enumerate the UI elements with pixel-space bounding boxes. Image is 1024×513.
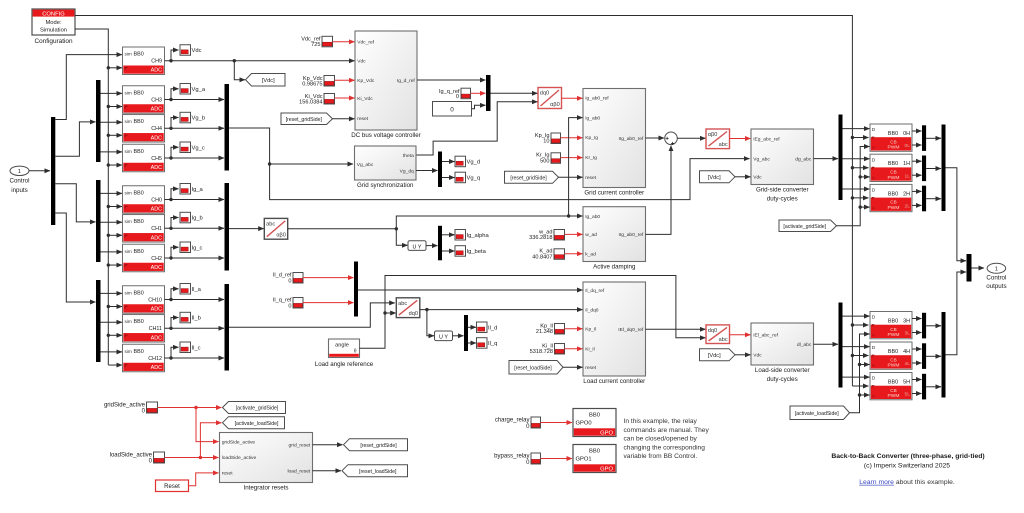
svg-text:Kp_Vdc: Kp_Vdc	[357, 78, 375, 84]
svg-text:αβ0: αβ0	[550, 102, 560, 108]
wire Vdc to load duty cycles	[735, 354, 751, 356]
wire selector to demux	[453, 335, 464, 337]
svg-text:4L: 4L	[905, 361, 911, 367]
wires PWM outputs to mux	[912, 379, 922, 381]
scope Vdc	[180, 45, 202, 56]
svg-text:Simulation: Simulation	[40, 27, 67, 33]
wire ADC output to Il mux	[165, 327, 225, 329]
wire PWM pair to collector	[926, 355, 941, 357]
svg-text:Back-to-Back Converter (three-: Back-to-Back Converter (three-phase, gri…	[831, 453, 984, 460]
wire Vdc to grid duty cycles	[735, 176, 751, 178]
svg-text:abc: abc	[266, 222, 275, 228]
scope Vg_a	[180, 84, 206, 95]
svg-text:IIg_ab0_ref: IIg_ab0_ref	[619, 232, 644, 238]
wire ADC output to Ig mux	[165, 257, 225, 259]
ADC block CH10	[123, 286, 165, 314]
wire demux A to ADC CH9	[55, 55, 122, 120]
svg-text:[Vdc]: [Vdc]	[708, 175, 721, 181]
scope Il_d	[477, 322, 498, 333]
svg-text:[activate_loadSide]: [activate_loadSide]	[795, 411, 839, 417]
subsystem Grid current controller	[583, 89, 646, 197]
demux load duty cycles	[839, 303, 843, 388]
wire ADC output to Vg mux	[165, 127, 225, 129]
wire PWM pair to collector	[926, 325, 941, 327]
svg-text:sim: sim	[125, 290, 132, 295]
svg-text:w_ad: w_ad	[585, 232, 597, 238]
wire Kr_Ig	[561, 157, 583, 159]
wire to output port	[972, 267, 985, 269]
svg-text:Vg_c: Vg_c	[192, 145, 205, 151]
svg-text:1: 1	[18, 169, 21, 175]
svg-text:[activate_gridSide]: [activate_gridSide]	[236, 406, 279, 412]
svg-text:reset: reset	[585, 365, 597, 371]
wire Vg_abc to grid synchronization and duty-cycles	[229, 128, 353, 164]
demux Il dq	[464, 315, 468, 351]
svg-text:Reset: Reset	[164, 484, 180, 490]
mux PWM pair	[922, 313, 926, 339]
mux PWM pair	[922, 125, 926, 151]
GPO block BB0 GPO1	[573, 445, 616, 473]
svg-text:Load current controller: Load current controller	[583, 378, 645, 385]
svg-text:GPO: GPO	[600, 431, 613, 437]
svg-text:Il_b: Il_b	[192, 316, 201, 322]
wire PWM pair to collector	[926, 198, 941, 200]
svg-text:In this example, the relay: In this example, the relay	[624, 418, 698, 425]
svg-text:sim: sim	[125, 149, 132, 154]
svg-text:can be closed/opened by: can be closed/opened by	[624, 436, 698, 443]
ADC block CH9	[123, 47, 165, 75]
svg-text:loadSide_active: loadSide_active	[222, 455, 257, 461]
svg-text:dq0: dq0	[540, 91, 549, 97]
wires PWM outputs to mux	[912, 130, 922, 132]
from tag [reset_gridSide] for DC bus controller	[281, 113, 333, 125]
from tag [Vdc] for grid duty cycles	[700, 171, 736, 183]
scope Il_q	[477, 338, 498, 349]
svg-text:dl_abc: dl_abc	[797, 342, 812, 348]
ADC block CH12	[123, 344, 165, 372]
wire Ig_q_ref to mux	[471, 92, 486, 94]
svg-text:CB: CB	[890, 170, 896, 175]
wire grid PWM bus to output mux	[946, 168, 967, 261]
svg-text:0: 0	[450, 106, 454, 113]
svg-text:Vg_dq: Vg_dq	[400, 168, 414, 174]
svg-text:2H: 2H	[903, 191, 910, 197]
wire reset to load current controller	[563, 366, 583, 368]
svg-text:Grid synchronization: Grid synchronization	[357, 182, 414, 189]
svg-text:reset: reset	[585, 175, 597, 181]
svg-text:Ki_Il: Ki_Il	[585, 347, 595, 353]
constant charge_relay 0	[531, 417, 541, 428]
wire to scope Ig_alpha	[442, 234, 455, 236]
svg-text:40.8407: 40.8407	[532, 254, 552, 260]
svg-text:CB: CB	[890, 388, 896, 393]
svg-text:Il_dq0: Il_dq0	[585, 307, 599, 313]
ADC block CH1	[123, 215, 165, 243]
goto tag [Vdc]	[246, 74, 286, 87]
transform alpha-beta-0 to abc grid	[706, 129, 730, 149]
svg-text:Vg_q: Vg_q	[467, 176, 481, 182]
constant Ki_Vdc 156.0384	[324, 94, 335, 105]
wire to scope Il_q	[468, 342, 476, 344]
wire Il_dq_ref to load current controller	[358, 289, 583, 291]
svg-text:Integrator resets: Integrator resets	[243, 485, 288, 492]
subsystem DC bus voltage controller	[351, 31, 420, 139]
svg-text:[reset_loadSide]: [reset_loadSide]	[359, 469, 397, 475]
svg-text:[Vdc]: [Vdc]	[262, 78, 275, 84]
wire demux A to demux B3	[55, 213, 95, 302]
svg-text:duty-cycles: duty-cycles	[767, 376, 798, 383]
demux grid duty cycles	[839, 115, 843, 201]
svg-text:IEl_abc_ref: IEl_abc_ref	[753, 333, 778, 339]
svg-text:BB0: BB0	[134, 119, 144, 125]
svg-text:BB0: BB0	[134, 349, 144, 355]
svg-text:GPO: GPO	[600, 467, 613, 473]
svg-text:D: D	[872, 345, 876, 351]
svg-text:BB0: BB0	[888, 131, 898, 137]
svg-text:sim: sim	[125, 90, 132, 95]
svg-text:1L: 1L	[905, 173, 911, 179]
wire constant 0 to mux	[472, 105, 486, 108]
svg-text:Il_c: Il_c	[192, 345, 201, 351]
constant Kp_Il 21.348	[555, 324, 565, 335]
svg-text:BB0: BB0	[134, 52, 144, 58]
constant Ki_Il 5318.728	[555, 344, 565, 355]
wire Ki_Il	[565, 348, 583, 350]
wire duty to PWM D input	[843, 315, 870, 317]
svg-text:CH4: CH4	[151, 126, 162, 132]
svg-text:Vdc: Vdc	[192, 48, 202, 54]
svg-text:ADC: ADC	[151, 165, 162, 171]
scope Ig_alpha	[455, 230, 490, 241]
svg-text:CH10: CH10	[148, 297, 162, 303]
svg-text:CH12: CH12	[148, 356, 162, 362]
svg-text:0: 0	[456, 94, 459, 100]
svg-text:BB0: BB0	[134, 319, 144, 325]
wire ADC output to Vg mux	[165, 157, 225, 159]
wire Il_d_ref to mux	[303, 277, 354, 279]
output port 1 Control outputs	[986, 263, 1006, 290]
svg-text:Il_q_ref: Il_q_ref	[273, 297, 292, 303]
demux bar A control inputs	[51, 117, 55, 225]
svg-text:CB: CB	[890, 200, 896, 205]
scope Il_c	[180, 342, 201, 353]
svg-text:Ig_b: Ig_b	[192, 216, 203, 222]
svg-text:k_ad: k_ad	[585, 252, 596, 258]
svg-text:Load-side converter: Load-side converter	[755, 367, 810, 374]
svg-text:Il_d_ref: Il_d_ref	[273, 272, 292, 278]
demux bar B2 grid currents	[96, 180, 101, 262]
wire Il_q_ref to mux	[303, 302, 354, 304]
scope Ig_a	[180, 184, 204, 195]
ADC block CH0	[123, 186, 165, 214]
svg-text:Vg_abc: Vg_abc	[753, 156, 770, 162]
wire control inputs to demux	[29, 170, 50, 172]
svg-text:Il_dq_ref: Il_dq_ref	[585, 288, 605, 294]
svg-text:loadSide_active: loadSide_active	[110, 452, 153, 458]
constant Kp_Ig 10	[551, 133, 561, 144]
svg-text:charge_relay: charge_relay	[495, 417, 530, 423]
scope Ig_c	[180, 242, 203, 253]
wire Reset to integrator resets	[189, 473, 219, 486]
svg-text:0: 0	[288, 279, 291, 285]
ADC block CH5	[123, 144, 165, 172]
scope Il_b	[180, 312, 201, 323]
wire theta from grid synchronization	[416, 102, 538, 155]
demux bar B1 grid voltages	[96, 80, 101, 162]
svg-text:PWM: PWM	[888, 363, 900, 369]
wire reset to grid current controller	[559, 176, 583, 178]
mux Ig_dq0_ref	[486, 75, 491, 111]
svg-text:abc: abc	[719, 142, 728, 148]
svg-text:dg_abc: dg_abc	[795, 156, 812, 162]
svg-text:ADC: ADC	[151, 235, 162, 241]
wire Il_abc to abc-dq0 transform	[229, 303, 395, 327]
wire bypass_relay to GPO1	[541, 458, 573, 460]
svg-text:5318.728: 5318.728	[530, 349, 553, 355]
svg-text:Ki_Vdc: Ki_Vdc	[357, 96, 373, 102]
wire Il_dq0 branch to selector	[427, 310, 434, 336]
svg-text:Il_d: Il_d	[488, 325, 497, 331]
subsystem Load current controller	[583, 282, 646, 385]
constant Il_q_ref 0	[293, 298, 303, 309]
svg-text:reset: reset	[222, 471, 234, 477]
GPO block BB0 GPO0	[573, 409, 616, 437]
wire PWM pair to collector	[926, 168, 941, 170]
svg-text:3H: 3H	[903, 318, 910, 324]
transform dq0 to alpha-beta-0	[538, 88, 562, 109]
wire Ig_abc to abc-ab0 transform	[229, 228, 264, 230]
svg-text:500: 500	[540, 158, 549, 164]
scope Ig_b	[180, 212, 203, 223]
demux Ig alpha beta	[438, 226, 442, 260]
wire load PWM bus to output mux	[946, 272, 967, 355]
svg-text:D: D	[872, 157, 876, 163]
wire theta load	[360, 276, 706, 349]
ADC block CH11	[123, 315, 165, 343]
svg-text:BB0: BB0	[888, 318, 898, 324]
svg-text:Ig_c: Ig_c	[192, 245, 203, 251]
PWM block BB0 0H 0L	[870, 124, 912, 151]
scope Vg_d	[455, 156, 480, 167]
transform dq0 to abc load	[706, 325, 730, 344]
svg-text:sim: sim	[125, 190, 132, 195]
svg-text:[activate_loadSide]: [activate_loadSide]	[235, 421, 279, 427]
svg-text:D: D	[872, 315, 876, 321]
wire duty to PWM D input	[843, 346, 870, 348]
wire Ig_d_ref to mux	[417, 79, 486, 81]
svg-text:Control: Control	[10, 178, 30, 185]
svg-text:Learn more about this example.: Learn more about this example.	[859, 479, 955, 486]
wire ADC output to Ig mux	[165, 199, 225, 201]
input port 1 Control inputs	[10, 166, 30, 194]
wire PWM pair to collector	[926, 137, 941, 139]
svg-text:Vdc: Vdc	[753, 353, 762, 359]
svg-text:DC bus voltage controller: DC bus voltage controller	[351, 132, 420, 139]
wire ADC output to Ig mux	[165, 227, 225, 229]
svg-text:D: D	[872, 376, 876, 382]
svg-text:αβ0: αβ0	[708, 132, 718, 138]
svg-text:CONFIG: CONFIG	[42, 11, 65, 17]
wire to scope Ig_beta	[442, 250, 455, 252]
wire Ki_Vdc	[335, 97, 355, 99]
wire reset to DC bus controller	[333, 118, 355, 120]
wire load_reset	[313, 470, 342, 472]
svg-text:U Y: U Y	[413, 244, 422, 250]
svg-text:angle: angle	[335, 343, 349, 349]
transform abc to dq0 load currents	[396, 298, 420, 318]
wire duty to PWM D input	[843, 188, 870, 190]
wire ADC output to scope Ig_c	[171, 247, 179, 258]
ADC block CH4	[123, 115, 165, 143]
svg-text:load_reset: load_reset	[287, 469, 310, 475]
wire grid_reset	[313, 444, 343, 446]
svg-text:Ig_beta: Ig_beta	[467, 249, 487, 255]
CONFIG configuration block	[32, 9, 75, 35]
wire w_ad	[565, 233, 583, 235]
svg-text:0: 0	[288, 304, 291, 310]
svg-text:CH3: CH3	[151, 97, 162, 103]
wire demux A to demux B2	[55, 184, 95, 222]
constant Ig_q_ref 0	[461, 88, 471, 99]
svg-text:ADC: ADC	[151, 265, 162, 271]
wire ADC output to Vg mux	[165, 99, 225, 101]
svg-text:theta: theta	[403, 153, 414, 159]
svg-text:Ig_d_ref: Ig_d_ref	[397, 78, 416, 84]
wire ADC output to scope Ig_b	[171, 218, 179, 229]
svg-text:[reset_gridSide]: [reset_gridSide]	[360, 443, 397, 449]
svg-text:Vg_abc: Vg_abc	[357, 162, 374, 168]
svg-text:21.348: 21.348	[536, 329, 553, 335]
svg-text:Ig_ab0_ref: Ig_ab0_ref	[585, 96, 609, 102]
svg-text:Grid current controller: Grid current controller	[584, 190, 644, 197]
svg-text:Active damping: Active damping	[593, 264, 636, 271]
wire Il_dq0	[420, 309, 583, 311]
wire Kp_Il	[565, 328, 583, 330]
constant gridSide_active 0	[147, 402, 158, 413]
selector U Y load	[435, 331, 453, 341]
svg-text:abc: abc	[398, 301, 407, 307]
svg-text:sim: sim	[125, 319, 132, 324]
wire IEg_abc_ref	[730, 138, 751, 140]
ADC block CH3	[123, 86, 165, 114]
svg-text:725: 725	[311, 42, 320, 48]
wire IEl_dq0_ref to transform	[646, 328, 706, 330]
subsystem Active damping	[583, 207, 646, 271]
svg-text:CB: CB	[890, 139, 896, 144]
svg-text:IIg_ab0_ref: IIg_ab0_ref	[619, 136, 644, 142]
svg-text:5L: 5L	[905, 392, 911, 398]
mux PWM pair	[922, 156, 926, 182]
svg-text:gridSide_active: gridSide_active	[222, 439, 256, 445]
svg-text:CH9: CH9	[151, 59, 162, 65]
svg-text:D: D	[872, 188, 876, 194]
svg-text:Kp_Ig: Kp_Ig	[585, 135, 598, 141]
svg-text:3L: 3L	[905, 331, 911, 337]
svg-text:Vdc: Vdc	[753, 175, 762, 181]
mux PWM pair	[922, 343, 926, 369]
svg-text:Ig_a: Ig_a	[192, 187, 204, 193]
selector U Y grid	[408, 241, 426, 251]
from tag [activate_gridSide]	[779, 220, 837, 232]
svg-text:Vg_b: Vg_b	[192, 116, 206, 122]
PWM block BB0 2H 2L	[870, 184, 912, 211]
wire ADC output to scope Vg_c	[171, 147, 179, 158]
constant w_ad 336.2818	[554, 230, 565, 241]
wire gridSide_active	[158, 407, 222, 409]
wire ADC output to scope Vdc	[171, 50, 179, 61]
svg-text:156.0384: 156.0384	[299, 100, 322, 106]
svg-text:ADC: ADC	[151, 68, 162, 74]
PWM block BB0 5H 5L	[870, 373, 912, 400]
svg-text:PWM: PWM	[888, 205, 900, 211]
svg-text:CH5: CH5	[151, 156, 162, 162]
svg-text:[reset_gridSide]: [reset_gridSide]	[510, 175, 547, 181]
sum junction	[665, 132, 678, 145]
svg-text:BB0: BB0	[134, 190, 144, 196]
PWM block BB0 1H 1L	[870, 154, 912, 181]
mux bar Ig_abc	[225, 183, 230, 271]
collector mux load PWM	[942, 312, 946, 398]
svg-text:BB0: BB0	[888, 379, 898, 385]
svg-text:BB0: BB0	[589, 412, 600, 418]
wire CONFIG clock bus to PWM blocks	[75, 16, 852, 387]
svg-text:reset: reset	[357, 116, 369, 122]
demux bar B3 load currents	[96, 280, 101, 362]
PWM block BB0 4H 4L	[870, 342, 912, 369]
wire CONFIG sim line to ADC inputs	[75, 29, 108, 365]
mux bar Vg_abc	[225, 84, 230, 171]
from tag [activate_loadSide]	[790, 406, 850, 420]
from tag [reset_loadSide] for load current controller	[509, 361, 563, 375]
svg-text:Kr_Ig: Kr_Ig	[585, 155, 597, 161]
svg-text:sim: sim	[125, 249, 132, 254]
scope Vg_b	[180, 112, 205, 123]
svg-text:D: D	[872, 127, 876, 133]
svg-text:αβ0: αβ0	[276, 233, 286, 239]
svg-text:Il_a: Il_a	[192, 287, 202, 293]
wire dg_abc to PWM demux	[814, 158, 839, 160]
svg-text:Vdc_ref: Vdc_ref	[357, 40, 374, 46]
goto tag [reset_loadSide]	[342, 465, 408, 477]
block Load angle reference	[329, 339, 360, 358]
wires PWM outputs to mux	[912, 190, 922, 192]
svg-text:Ig_ab0: Ig_ab0	[585, 115, 600, 121]
svg-text:PWM: PWM	[888, 332, 900, 338]
wire Vdc_ref	[333, 41, 355, 43]
svg-text:CH2: CH2	[151, 256, 162, 262]
wire Kp_Vdc	[335, 79, 355, 81]
svg-text:(c) Imperix Switzerland 2025: (c) Imperix Switzerland 2025	[864, 462, 950, 469]
wire IEl_abc_ref	[730, 334, 751, 336]
wire Vdc to goto tag	[234, 61, 245, 80]
wire demux A to demux B1	[55, 122, 95, 156]
svg-text:sim: sim	[125, 349, 132, 354]
svg-text:PWM: PWM	[888, 393, 900, 399]
svg-text:ADC: ADC	[151, 365, 162, 371]
constant bypass_relay 0	[531, 453, 541, 464]
svg-text:Grid-side converter: Grid-side converter	[756, 187, 809, 194]
constant 0 block	[433, 102, 472, 117]
wires demux B to ADC signal inputs	[101, 92, 123, 94]
svg-text:sim: sim	[125, 219, 132, 224]
svg-text:Ig_ab0: Ig_ab0	[585, 214, 600, 220]
wires PWM outputs to mux	[912, 348, 922, 350]
wire Ig_ab0 branch to selector	[396, 229, 407, 246]
wire Ig_ab0_ref	[562, 97, 583, 99]
wire to scope Vg_q	[442, 177, 455, 179]
scope Vg_c	[180, 142, 205, 153]
svg-text:Control: Control	[986, 275, 1006, 282]
